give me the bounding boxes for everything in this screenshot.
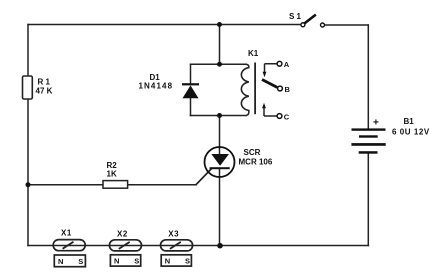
resistor R1 — [23, 76, 33, 99]
svg-text:N: N — [114, 257, 119, 266]
svg-text:+: + — [373, 118, 379, 129]
relay contact A wire — [265, 63, 277, 65]
wire SCR cathode to bottom rail — [219, 169, 221, 246]
magnet X1 (N S box) — [54, 255, 85, 267]
wire top rail left segment — [28, 24, 301, 26]
svg-text:C: C — [284, 112, 290, 121]
wire D1 cathode — [190, 64, 192, 83]
svg-text:N: N — [165, 257, 170, 266]
wire SCR gate diagonal — [196, 169, 212, 185]
sensor X3 (reed switch) — [161, 240, 193, 251]
wire D1 anode — [190, 98, 192, 116]
relay armature (pole to B) — [262, 80, 277, 88]
svg-text:B1: B1 — [404, 117, 415, 126]
svg-text:S: S — [185, 257, 190, 266]
SCR Q1 — [205, 147, 235, 177]
wire left rail lower — [27, 99, 29, 246]
switch S1 — [301, 15, 325, 27]
magnet X2 (N S box) — [110, 255, 140, 266]
sensor X2 (reed switch) — [109, 240, 141, 251]
svg-text:6 0U 12V: 6 0U 12V — [392, 128, 430, 137]
magnet X3 (N S box) — [161, 255, 191, 266]
svg-text:B: B — [285, 85, 291, 94]
wire SCR anode inside circle — [219, 148, 221, 155]
node junction left rail / R2 wire — [26, 182, 31, 187]
svg-text:N: N — [58, 257, 63, 266]
wire center vertical from top rail to K1 box — [219, 25, 221, 65]
relay contact A stub with down arrow — [263, 64, 267, 77]
resistor R2 — [103, 181, 128, 189]
node junction bottom rail / SCR cathode — [217, 243, 223, 249]
svg-text:X2: X2 — [117, 230, 128, 239]
diode D1 — [182, 83, 199, 98]
wire R2 left (gate wire from left rail) — [28, 184, 103, 186]
svg-text:S: S — [134, 257, 139, 266]
svg-text:S 1: S 1 — [289, 12, 302, 21]
svg-text:1N4148: 1N4148 — [139, 82, 174, 91]
wire center vertical K1 box to SCR — [219, 116, 221, 149]
node junction K1 box bottom — [217, 113, 222, 118]
svg-text:SCR: SCR — [244, 148, 261, 157]
svg-text:X1: X1 — [61, 229, 72, 238]
svg-text:1K: 1K — [107, 169, 117, 178]
relay contact C wire — [264, 115, 277, 117]
relay K1 coil — [241, 64, 248, 115]
svg-text:47 K: 47 K — [36, 87, 53, 96]
svg-text:A: A — [284, 60, 290, 69]
relay contact C stub with up arrow — [262, 103, 266, 116]
svg-text:X3: X3 — [168, 230, 179, 239]
wire top rail right segment — [325, 24, 369, 26]
relay K1 core — [254, 63, 256, 115]
wire right rail lower (battery -) — [367, 154, 369, 246]
svg-text:MCR 106: MCR 106 — [239, 158, 273, 167]
svg-text:K1: K1 — [248, 49, 259, 58]
wire K1 box bottom — [191, 115, 247, 117]
sensor X1 (reed switch) — [53, 240, 85, 251]
wire R2 right to SCR gate — [128, 184, 196, 186]
relay contact B terminal circle — [278, 86, 283, 91]
relay contact A terminal circle — [277, 61, 282, 66]
wire left rail upper — [27, 25, 29, 77]
wire K1 box top — [191, 63, 247, 65]
wire right rail upper (battery +) — [367, 25, 369, 128]
svg-text:R 1: R 1 — [38, 78, 51, 87]
svg-text:S: S — [78, 257, 83, 266]
node junction top rail / center vertical — [217, 22, 222, 27]
wire bottom rail — [28, 245, 368, 247]
relay contact C terminal circle — [277, 114, 282, 119]
battery B1 — [351, 128, 385, 153]
node junction K1 box top — [217, 62, 222, 67]
